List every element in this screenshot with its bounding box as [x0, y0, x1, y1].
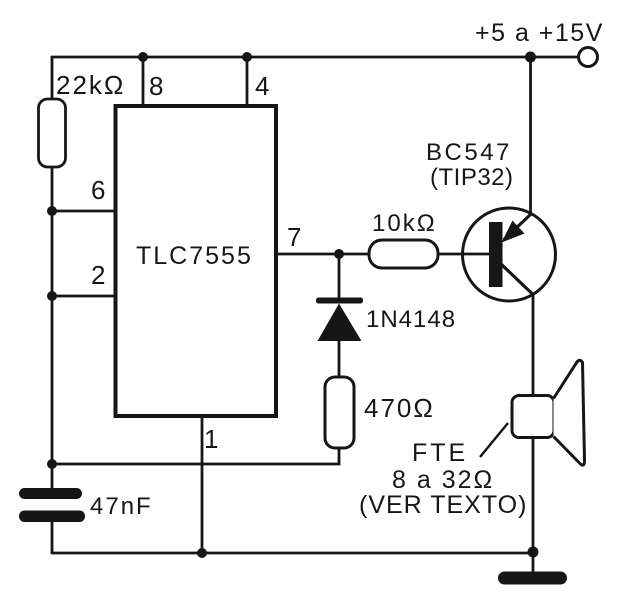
- resistor R2 10k: [369, 210, 438, 268]
- supply terminal +5 a +15V: [475, 19, 604, 67]
- svg-text:6: 6: [91, 175, 105, 205]
- speaker FTE: [359, 360, 585, 519]
- svg-text:22kΩ: 22kΩ: [56, 70, 125, 100]
- diode D1 1N4148: [316, 298, 456, 342]
- wire pin 1: [201, 416, 204, 553]
- svg-text:BC547: BC547: [426, 139, 512, 166]
- resistor R3 470: [325, 377, 435, 448]
- svg-text:1N4148: 1N4148: [366, 306, 456, 333]
- wire pin 4 stub: [246, 57, 249, 106]
- junction node dots: [47, 52, 539, 559]
- node rail 470: [47, 459, 57, 469]
- wire 470 bottom lead to left rail: [52, 448, 339, 464]
- wire bottom ground rail: [52, 552, 533, 555]
- svg-text:10kΩ: 10kΩ: [372, 210, 437, 237]
- wire pin 7 to 10k: [276, 253, 369, 256]
- svg-text:470Ω: 470Ω: [364, 393, 435, 423]
- node speaker ground: [528, 547, 539, 558]
- svg-text:7: 7: [287, 222, 301, 252]
- wire pin 2: [52, 295, 116, 298]
- wire supply vertical to emitter: [529, 57, 532, 214]
- callout line: [480, 423, 508, 457]
- node pin6 rail: [47, 206, 57, 216]
- capacitor C1 47nF: [19, 488, 153, 522]
- wire diode top lead: [338, 254, 341, 298]
- svg-text:+5 a +15V: +5 a +15V: [475, 19, 604, 47]
- IC U1 TLC7555: [116, 106, 277, 416]
- resistor R1 22k: [39, 70, 126, 167]
- svg-text:FTE: FTE: [412, 439, 468, 467]
- wire 10k to base: [438, 253, 489, 256]
- wire collector to speaker: [532, 295, 535, 397]
- wire pin 6: [52, 210, 116, 213]
- wire top supply rail: [52, 56, 577, 59]
- svg-text:8 a 32Ω: 8 a 32Ω: [392, 466, 494, 494]
- node pin7 diode: [334, 249, 344, 259]
- node pin8 top: [138, 52, 148, 62]
- node supply: [525, 52, 536, 63]
- wire pin 8 stub: [142, 57, 145, 106]
- transistor Q1 BC547 (TIP32): [426, 139, 556, 301]
- svg-text:(TIP32): (TIP32): [430, 164, 514, 191]
- wire diode to 470: [338, 341, 341, 377]
- wire left rail: [51, 57, 54, 488]
- svg-text:1: 1: [204, 424, 218, 454]
- wire capacitor bottom lead: [51, 522, 54, 553]
- svg-text:4: 4: [255, 71, 269, 101]
- svg-text:8: 8: [149, 71, 163, 101]
- node pin2 rail: [47, 291, 57, 301]
- node pin4 top: [242, 52, 252, 62]
- ground: [498, 572, 567, 585]
- wire ground stub: [532, 553, 535, 572]
- svg-text:(VER TEXTO): (VER TEXTO): [359, 491, 527, 519]
- wire speaker to ground rail: [532, 437, 535, 553]
- svg-text:TLC7555: TLC7555: [136, 242, 253, 270]
- node pin1 ground rail: [197, 548, 207, 558]
- svg-text:2: 2: [91, 260, 105, 290]
- svg-text:47nF: 47nF: [90, 493, 153, 520]
